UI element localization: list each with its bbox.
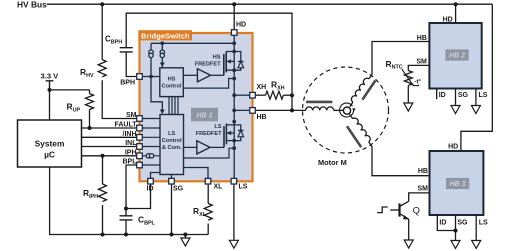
svg-text:BridgeSwitch: BridgeSwitch	[141, 31, 190, 40]
wire HD2	[455, 4, 457, 23]
wire ID external (to CBPL node)	[126, 184, 151, 209]
wire HD pin to rail	[233, 33, 235, 43]
node IPH / RIPH junction	[101, 154, 105, 158]
BridgeSwitch title banner	[138, 30, 192, 40]
svg-text:XL: XL	[214, 184, 224, 191]
wire IPH row	[82, 155, 137, 157]
wire internal top rail	[151, 42, 234, 44]
resistor RXH	[256, 80, 292, 100]
wire HS feedback	[183, 79, 234, 89]
svg-text:& Com.: & Com.	[162, 145, 182, 151]
wire HB internal	[234, 95, 249, 121]
svg-text:HV Bus: HV Bus	[17, 0, 47, 9]
HS Control box	[160, 68, 184, 97]
capacitor CBPL	[120, 209, 156, 237]
motor winding B (top right)	[350, 71, 376, 107]
motor winding A (left)	[300, 102, 344, 111]
svg-text:SG: SG	[173, 185, 184, 192]
svg-text:ID: ID	[147, 185, 154, 192]
node RXH / bootstrap junction	[290, 93, 294, 97]
svg-text:-t°: -t°	[415, 80, 422, 86]
System uC box	[18, 120, 82, 167]
wire uC ground drop and bottom ground bus	[50, 167, 209, 235]
svg-text:Q: Q	[413, 205, 420, 216]
svg-text:SM: SM	[416, 58, 427, 65]
node HV bus / HD2 junction	[454, 2, 458, 6]
wires left pin rows into LS control	[143, 119, 161, 166]
svg-text:Control: Control	[162, 84, 182, 90]
current source CS2 with arrow into HS control	[160, 43, 165, 68]
svg-text:Control: Control	[162, 138, 182, 144]
HB2 block	[429, 23, 481, 89]
ground symbol Q emitter	[404, 240, 413, 248]
transistor Q	[390, 201, 420, 240]
node bus / ground junction	[183, 233, 187, 237]
FREDFET HS (mosfet)	[224, 43, 236, 95]
wire /INH row	[82, 136, 137, 138]
motor dashed circle	[303, 67, 389, 153]
resistor RNTC thermistor	[386, 59, 422, 103]
svg-text:FREDFET: FREDFET	[196, 131, 222, 137]
wire FAULT row	[82, 127, 137, 129]
resistor RUP	[67, 90, 94, 130]
node HV bus / RHV junction	[100, 2, 104, 6]
wire SG internal	[171, 175, 173, 179]
pin squares left: BPH SM FAULT /INH INL IPH BPL	[137, 74, 143, 168]
base drive square wave symbol	[377, 207, 388, 213]
wire BPH row internal	[143, 76, 160, 78]
svg-text:FREDFET: FREDFET	[195, 62, 221, 68]
svg-text:ID: ID	[439, 92, 446, 99]
current source CS1	[149, 43, 153, 76]
diode HS body	[234, 52, 243, 71]
svg-text:XH: XH	[257, 84, 267, 91]
svg-text:INL: INL	[125, 140, 137, 147]
wire ID internal	[151, 173, 161, 179]
node BPH/CS1	[149, 75, 153, 79]
HB2 bottom stubs: ID SG LS	[437, 89, 488, 114]
motor rotor center	[340, 103, 356, 117]
wire HV bus	[47, 3, 493, 5]
ground symbol LS1	[229, 240, 238, 248]
BridgeSwitch block body	[140, 33, 253, 181]
svg-text:3.3 V: 3.3 V	[41, 71, 60, 80]
wires HS control to LS control (4 lines)	[169, 97, 178, 115]
svg-text:LS: LS	[214, 124, 221, 130]
driver triangle LS	[184, 141, 225, 154]
svg-text:BPL: BPL	[123, 159, 138, 166]
svg-text:SG: SG	[457, 220, 468, 227]
svg-text:/INH: /INH	[123, 131, 137, 138]
svg-text:µC: µC	[44, 149, 55, 159]
node rail/HD	[232, 41, 236, 45]
svg-text:HB 2: HB 2	[449, 53, 465, 60]
svg-text:LS: LS	[168, 131, 175, 137]
label HB 1	[191, 108, 218, 122]
svg-text:HD: HD	[236, 22, 246, 29]
node BPL / ID junction	[124, 207, 128, 211]
svg-text:HD: HD	[448, 144, 458, 151]
svg-text:LS: LS	[239, 184, 248, 191]
wire LS feedback	[184, 148, 235, 158]
node HB / motor junction	[290, 108, 294, 112]
svg-text:HB 3: HB 3	[450, 181, 466, 188]
wire XL internal	[184, 168, 209, 179]
svg-text:FAULT: FAULT	[114, 122, 137, 129]
pin squares bottom: ID SG XL LS	[148, 178, 237, 184]
svg-text:Motor M: Motor M	[318, 158, 347, 167]
wire LS1 to ground	[233, 184, 235, 241]
svg-text:HB 1: HB 1	[197, 113, 213, 120]
node HV bus / HD1 junction	[232, 2, 236, 6]
LS Control box	[160, 115, 184, 175]
wire INL row	[82, 146, 137, 148]
node SG / bus junction	[170, 233, 174, 237]
svg-text:SM: SM	[126, 112, 137, 119]
svg-text:SG: SG	[458, 92, 469, 99]
wire BPL row	[126, 165, 137, 209]
wire HV bus right edge down to HB3 HD	[461, 4, 492, 151]
wire SG external down to bus	[171, 184, 173, 235]
pin square HD	[231, 30, 237, 36]
pin squares right: XH HB	[250, 92, 256, 113]
wire bootstrap line CBPH to XH	[126, 13, 292, 93]
diode LS body	[234, 125, 243, 141]
supply 3.3V	[41, 71, 90, 120]
wire motor B to HB2	[372, 42, 429, 71]
svg-text:LS: LS	[479, 220, 488, 227]
resistor RXL	[193, 184, 212, 235]
svg-text:IPH: IPH	[125, 149, 137, 156]
FREDFET LS (mosfet)	[224, 120, 236, 181]
wire HB1 to motor	[256, 109, 300, 111]
svg-text:System: System	[35, 139, 65, 149]
HB3 bottom: ID SG tie and grounds	[437, 215, 488, 248]
motor winding C (bottom right)	[347, 114, 372, 150]
svg-text:LS: LS	[479, 92, 488, 99]
resistor RHV	[80, 4, 137, 118]
node rail/CS2	[160, 41, 164, 45]
HB3 block	[430, 151, 484, 215]
wire SM2 to RNTC	[408, 65, 429, 70]
svg-text:HB: HB	[418, 168, 428, 175]
wire XH internal	[234, 94, 249, 96]
wire motor C to HB3	[372, 150, 430, 176]
svg-text:SM: SM	[418, 186, 429, 193]
svg-text:HS: HS	[213, 55, 221, 61]
svg-text:HB: HB	[417, 35, 427, 42]
wire SM3 to transistor	[409, 193, 430, 201]
wire XH junction down to HB	[291, 95, 293, 110]
ground symbol main bus	[181, 235, 190, 247]
svg-text:HS: HS	[168, 77, 176, 83]
svg-text:HB: HB	[257, 114, 267, 121]
current source symbol on IPH row	[146, 154, 154, 158]
driver triangle HS	[183, 69, 224, 82]
svg-text:ID: ID	[439, 220, 446, 227]
wire CS1 down to LS control with arrow	[151, 77, 162, 111]
resistor RIPH	[83, 156, 107, 237]
capacitor CBPH	[105, 35, 137, 77]
svg-text:HD: HD	[443, 17, 453, 24]
ground symbol RNTC	[404, 103, 413, 111]
svg-text:BPH: BPH	[120, 80, 135, 87]
